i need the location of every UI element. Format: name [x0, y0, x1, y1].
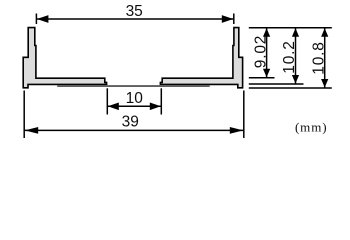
dim 10: left arrow: [108, 103, 119, 111]
svg-text:(mm): (mm): [295, 119, 327, 134]
svg-text:10.2: 10.2: [281, 40, 298, 73]
svg-text:9.02: 9.02: [252, 35, 269, 68]
dim 35: dimension line: [37, 18, 233, 20]
gray strip (inserted plate): [57, 85, 210, 87]
dim 35: extension line left: [35, 14, 37, 25]
dim 35: left arrow: [37, 15, 49, 23]
dim 10: extension line right: [160, 88, 162, 114]
dim 10.8: top arrow: [321, 28, 328, 37]
dim 9.02: dimension line: [266, 28, 268, 77]
dim 39: extension line right: [243, 91, 245, 139]
dim 10: dimension line: [108, 105, 161, 107]
dim 10.2: top arrow: [292, 28, 299, 37]
svg-text:10.8: 10.8: [310, 41, 327, 74]
svg-text:10: 10: [126, 90, 144, 107]
profile left piece: [23, 28, 106, 88]
svg-text:35: 35: [126, 3, 143, 20]
dim 9.02: top arrow: [263, 28, 270, 37]
right side: foot-bottom extension line (for 10.8): [249, 87, 332, 89]
right side: base-bottom extension line (for 10.2): [249, 83, 304, 85]
dim 10.2: bottom arrow: [292, 75, 299, 84]
dim 10: right arrow: [150, 103, 161, 111]
profile right piece: [160, 28, 242, 88]
svg-text:39: 39: [122, 114, 139, 131]
dim 35: right arrow: [222, 15, 234, 23]
dim 10: extension line left: [106, 88, 108, 114]
dim 10.8: dimension line: [324, 28, 326, 87]
dim 39: dimension line: [25, 129, 244, 131]
right side: floor extension line (for 9.02): [249, 77, 275, 79]
right side: top extension line: [249, 27, 332, 29]
dim 10.8: bottom arrow: [321, 79, 328, 88]
dim 9.02: bottom arrow: [263, 69, 270, 78]
dim 10.2: dimension line: [295, 28, 297, 83]
dim 39: extension line left: [23, 91, 25, 139]
dim 39: right arrow: [230, 127, 244, 134]
dim 39: left arrow: [25, 127, 39, 134]
dim 35: extension line right: [233, 14, 235, 25]
